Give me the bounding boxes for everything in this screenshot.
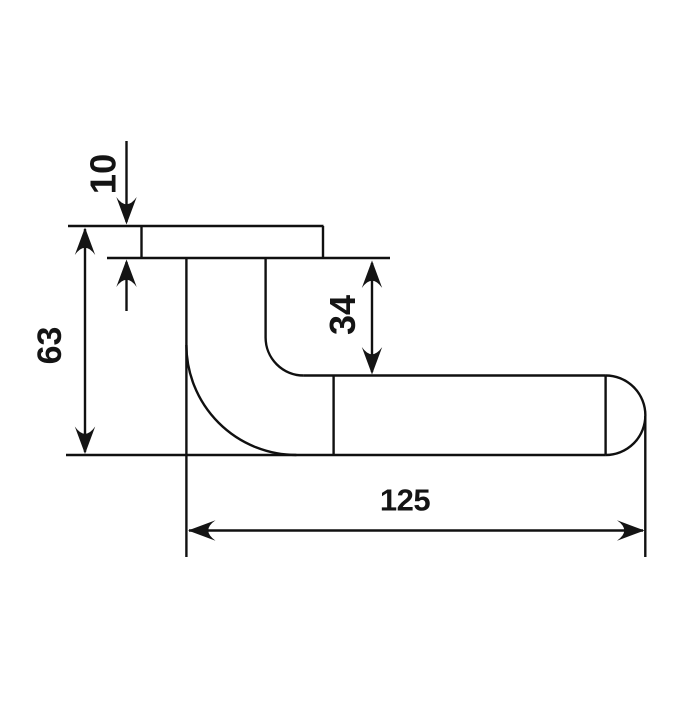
- svg-text:125: 125: [380, 483, 430, 518]
- svg-text:10: 10: [83, 154, 124, 195]
- svg-text:34: 34: [322, 295, 363, 335]
- svg-text:63: 63: [31, 327, 69, 365]
